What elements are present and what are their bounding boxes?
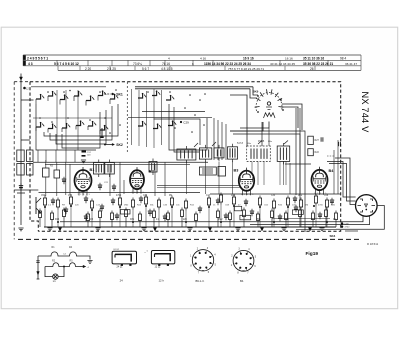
svg-text:40 41 42 43 44 45: 40 41 42 43 44 45 [270, 62, 295, 66]
svg-text:2: 2 [80, 194, 81, 196]
svg-text:4 3: 4 3 [28, 62, 33, 66]
svg-text:4 8 10 5: 4 8 10 5 [161, 67, 173, 71]
svg-text:24: 24 [120, 279, 124, 283]
svg-text:24 21: 24 21 [117, 265, 124, 268]
svg-text:3: 3 [83, 194, 84, 196]
svg-text:B1: B1 [90, 168, 95, 172]
svg-text:517.8: 517.8 [237, 142, 244, 145]
svg-text:R24: R24 [231, 195, 236, 197]
svg-text:SK9: SK9 [253, 90, 259, 94]
svg-text:2M2: 2M2 [218, 219, 223, 221]
svg-text:2 4 9 5 5 6 7 1: 2 4 9 5 5 6 7 1 [27, 56, 48, 60]
svg-text:B2: B2 [149, 170, 154, 174]
svg-text:C52: C52 [41, 195, 46, 197]
svg-text:4700: 4700 [318, 205, 324, 207]
svg-text:C41: C41 [143, 195, 148, 197]
svg-text:B1 B2: B1 B2 [114, 249, 120, 251]
svg-text:16 16: 16 16 [285, 56, 293, 60]
svg-text:4 16: 4 16 [200, 56, 206, 60]
svg-text:R 18.511: R 18.511 [367, 242, 379, 246]
svg-text:SK4: SK4 [330, 234, 336, 238]
svg-text:C29: C29 [183, 121, 189, 125]
svg-text:12 11: 12 11 [155, 265, 161, 268]
svg-text:76 16: 76 16 [162, 62, 170, 66]
svg-text:4700: 4700 [116, 195, 122, 197]
svg-text:5 6 7 4 5 6 10 12: 5 6 7 4 5 6 10 12 [54, 62, 79, 66]
svg-text:Fig19: Fig19 [306, 251, 319, 257]
svg-text:26: 26 [310, 67, 314, 71]
svg-text:98 4: 98 4 [340, 56, 346, 60]
svg-text:73 6¼: 73 6¼ [133, 62, 142, 66]
svg-text:4: 4 [168, 56, 170, 60]
svg-text:R12: R12 [298, 195, 303, 197]
svg-text:B3: B3 [234, 169, 239, 173]
svg-text:NX 744 V: NX 744 V [360, 92, 370, 134]
svg-text:1M: 1M [90, 219, 93, 221]
svg-text:757.6 77 9.18 21.25 29.71: 757.6 77 9.18 21.25 29.71 [228, 67, 264, 71]
svg-text:35 11 10 36 16: 35 11 10 36 16 [303, 56, 324, 60]
svg-text:35 36 08 22 23 26 21: 35 36 08 22 23 26 21 [303, 62, 333, 66]
svg-text:SK1: SK1 [116, 93, 123, 97]
svg-text:16 9 16: 16 9 16 [243, 56, 254, 60]
svg-text:12 h: 12 h [159, 279, 165, 283]
svg-text:C58: C58 [324, 195, 329, 197]
svg-text:R22: R22 [315, 151, 320, 154]
svg-text:5 6 7: 5 6 7 [142, 67, 149, 71]
svg-text:2 20: 2 20 [85, 67, 91, 71]
svg-text:B4.: B4. [240, 279, 244, 283]
svg-text:C33: C33 [271, 195, 276, 197]
svg-text:KHz: KHz [247, 143, 251, 145]
svg-text:SK2: SK2 [116, 143, 123, 147]
svg-text:2 4 25: 2 4 25 [107, 67, 116, 71]
svg-text:1M: 1M [305, 205, 308, 207]
svg-text:R27: R27 [315, 139, 320, 142]
svg-text:B9-1-3.: B9-1-3. [196, 279, 205, 283]
svg-text:1: 1 [78, 194, 79, 196]
svg-text:R16: R16 [55, 219, 60, 221]
svg-text:4: 4 [86, 194, 87, 196]
svg-text:KHz: KHz [268, 141, 272, 143]
svg-text:4700: 4700 [345, 227, 351, 229]
svg-text:R31: R31 [130, 219, 135, 221]
svg-text:1156 34 34 56 22 23 24 25 26 3: 1156 34 34 56 22 23 24 25 26 34 [204, 62, 251, 66]
svg-text:36 41 47: 36 41 47 [345, 62, 357, 66]
svg-text:5: 5 [89, 194, 90, 196]
svg-text:C17: C17 [206, 195, 211, 197]
